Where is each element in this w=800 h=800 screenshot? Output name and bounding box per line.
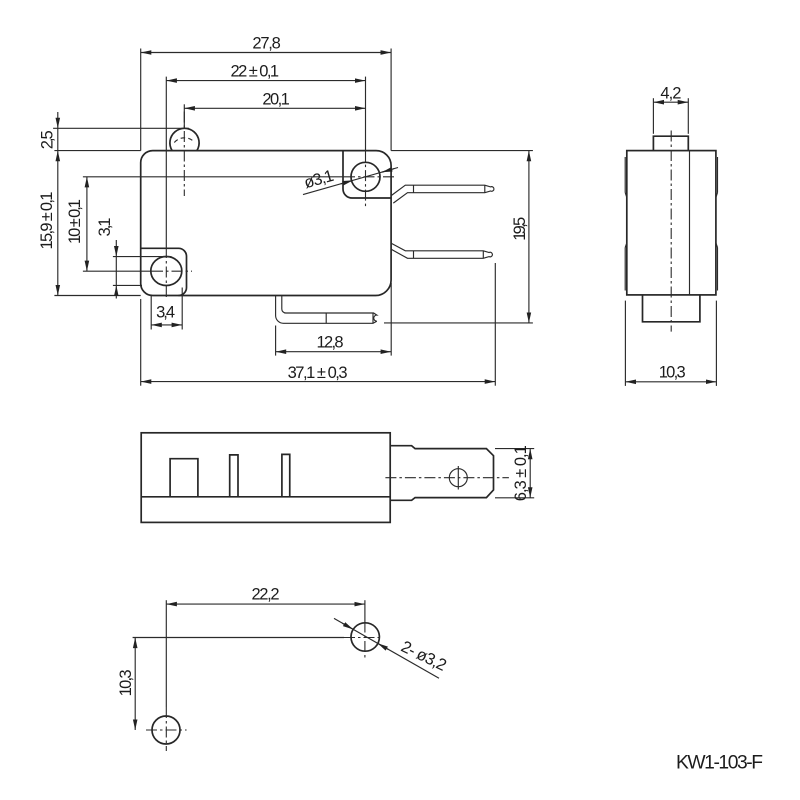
svg-text:37,1 ± 0,3: 37,1 ± 0,3 bbox=[288, 364, 348, 382]
svg-text:12,8: 12,8 bbox=[317, 333, 344, 351]
front view: top-right mounting boss bbox=[343, 151, 391, 198]
side view: bottom block bbox=[643, 295, 700, 322]
svg-text:10,3: 10,3 bbox=[117, 669, 135, 696]
dimension 10 ± 0,1 (left, hole spacing vertical) bbox=[66, 177, 396, 271]
front view: plunger button arc bbox=[170, 128, 199, 150]
dimension 10,3 (side body width) bbox=[625, 301, 716, 386]
side view: centerline bbox=[670, 131, 672, 332]
svg-text:19,5: 19,5 bbox=[511, 217, 529, 241]
bottom view: terminal blade bbox=[390, 446, 493, 501]
dimension 6,3 ± 0,1 (blade width) bbox=[495, 445, 534, 501]
front view: lower-left mounting hole bbox=[151, 257, 182, 286]
bottom view: blade centerline bbox=[385, 477, 509, 479]
bottom view: slot 1 bbox=[170, 459, 198, 497]
bottom view: slot 2 bbox=[230, 455, 238, 497]
svg-text:20,1: 20,1 bbox=[262, 91, 290, 109]
bottom view: blade hole bbox=[449, 466, 467, 490]
svg-text:ø3,1: ø3,1 bbox=[302, 167, 336, 193]
side view: mould parting strips left bbox=[625, 157, 627, 291]
dimension 22,2 (hole spacing horizontal) bbox=[166, 586, 365, 752]
hole pattern: left hole bbox=[152, 716, 180, 744]
front view: lower-left mounting boss bbox=[141, 248, 187, 295]
svg-text:10 ± 0,1: 10 ± 0,1 bbox=[66, 199, 84, 244]
front view: top-right mounting hole bbox=[351, 162, 380, 191]
svg-text:4,2: 4,2 bbox=[660, 84, 681, 102]
svg-text:27,8: 27,8 bbox=[252, 34, 281, 52]
side view: button bbox=[653, 136, 688, 150]
front view: plunger centerline bbox=[183, 112, 185, 197]
dimension 4,2 (side button width) bbox=[653, 84, 688, 134]
svg-text:10,3: 10,3 bbox=[659, 364, 686, 382]
front view: plunger pressed position dashed arc bbox=[174, 138, 194, 143]
front view: switch body outline bbox=[141, 151, 391, 296]
label ø3,1 with leader to top-right hole bbox=[302, 167, 398, 195]
svg-text:3,4: 3,4 bbox=[156, 304, 175, 322]
dimension 19,5 (overall height right) bbox=[384, 151, 533, 323]
dimension 2,5 (left, plunger height) bbox=[39, 112, 189, 151]
svg-text:6,3 ± 0,1: 6,3 ± 0,1 bbox=[512, 445, 530, 501]
dimension 27,8 (front top) bbox=[141, 34, 391, 150]
front view: terminal 2 (middle blade) bbox=[391, 243, 492, 258]
dimension 37,1 ± 0,3 (overall length) bbox=[141, 263, 496, 386]
bottom view: body bbox=[141, 433, 390, 523]
svg-text:KW1-103-F: KW1-103-F bbox=[676, 752, 763, 773]
dimension 10,3 (hole spacing vertical) bbox=[117, 638, 382, 731]
svg-text:15,9 ± 0,1: 15,9 ± 0,1 bbox=[38, 192, 56, 250]
front view: terminal 3 (bottom L-shaped blade) bbox=[276, 296, 377, 324]
bottom view: slot 3 bbox=[282, 454, 290, 496]
hole pattern: right hole bbox=[351, 623, 379, 651]
svg-text:22,2: 22,2 bbox=[252, 586, 280, 604]
dimension 20,1 (front) bbox=[184, 91, 365, 128]
front view: terminal 1 (top blade) bbox=[391, 185, 494, 203]
dimension 3,1 (left, boss top to hole center) bbox=[96, 218, 172, 299]
svg-text:2,5: 2,5 bbox=[39, 130, 57, 149]
svg-text:22 ± 0,1: 22 ± 0,1 bbox=[231, 62, 279, 80]
dimension 3,4 (slot width under lower-left hole) bbox=[151, 288, 182, 330]
dimension 15,9 ± 0,1 (left, body height) bbox=[38, 151, 141, 296]
dimension 12,8 (bottom terminal offset) bbox=[276, 283, 392, 356]
part number KW1-103-F bbox=[676, 752, 763, 773]
label 2- ø3,2 with leader to right hole bbox=[334, 618, 449, 678]
dimension 22 ± 0,1 (front) bbox=[166, 62, 365, 299]
side view: body bbox=[627, 151, 716, 295]
svg-text:3,1: 3,1 bbox=[96, 218, 114, 237]
side view: mould parting strips right bbox=[716, 157, 718, 291]
